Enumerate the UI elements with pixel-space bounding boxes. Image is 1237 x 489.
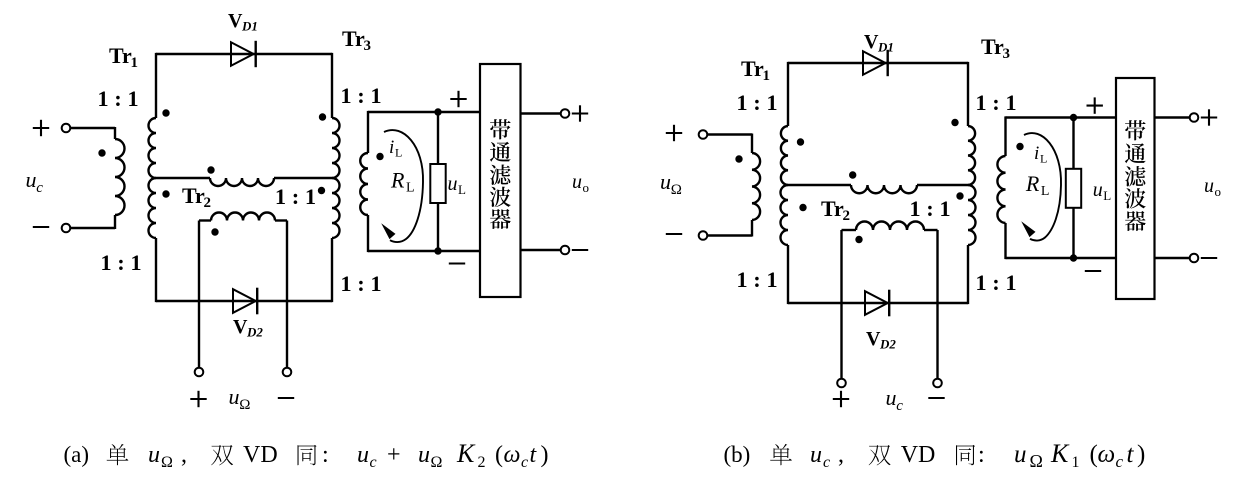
svg-text:L: L [458, 182, 466, 197]
node: output - terminal (a) [561, 246, 589, 255]
transformer Tr2 lower winding (b) [842, 222, 938, 230]
caption (b) [724, 439, 1146, 471]
wire output top (a) [521, 112, 561, 114]
transformer Tr1 secondary / left column winding (b) [781, 62, 788, 304]
svg-text:L: L [1103, 188, 1111, 203]
svg-text:Tr: Tr [109, 43, 132, 68]
polarity dot left column lower (a) [162, 190, 169, 197]
svg-text:Tr: Tr [981, 34, 1004, 59]
transformer Tr3 primary / right column winding (b) [968, 62, 976, 304]
svg-text:R: R [1025, 171, 1040, 196]
label VD2 (a) [233, 316, 263, 340]
svg-text:1: 1 [131, 55, 139, 71]
svg-text:1 : 1: 1 : 1 [975, 270, 1016, 295]
svg-text:o: o [1215, 184, 1222, 199]
transformer Tr1 primary winding (b) [752, 153, 760, 220]
caption (a) [64, 439, 549, 471]
svg-text:u: u [26, 167, 37, 192]
svg-text:u: u [357, 442, 369, 468]
wire top rail (a) [156, 53, 332, 55]
transformer Tr3 secondary winding (b) [997, 116, 1005, 259]
svg-text:D1: D1 [241, 19, 258, 34]
label + load (b) [1087, 97, 1103, 113]
svg-text:c: c [896, 398, 903, 414]
svg-text:3: 3 [1003, 46, 1011, 62]
svg-text:2: 2 [843, 208, 851, 224]
label Tr3 (a) [342, 26, 371, 54]
polarity dot left column upper (a) [162, 109, 169, 116]
svg-text:t: t [1127, 441, 1135, 468]
wire output top (b) [1155, 116, 1190, 118]
label Tr3 (b) [981, 34, 1010, 62]
transformer Tr1 primary winding (a) [115, 139, 125, 215]
node: output + terminal (b) [1190, 109, 1218, 125]
wire output bottom (b) [1155, 257, 1190, 259]
transformer Tr3 primary / right column winding (a) [332, 53, 340, 302]
label Tr2 (b) [821, 196, 850, 224]
svg-text:(a): (a) [64, 442, 90, 467]
diode VD2 (b) [865, 290, 889, 317]
svg-text:1 : 1: 1 : 1 [275, 184, 316, 209]
svg-text:V: V [233, 316, 248, 338]
svg-text:D1: D1 [877, 40, 894, 55]
wire center rail with Tr2 winding (a) [156, 178, 332, 186]
label band-pass filter characters (a) [490, 119, 511, 229]
polarity dot right column upper (b) [951, 119, 958, 126]
svg-text:1 : 1: 1 : 1 [97, 86, 138, 111]
polarity dot Tr3 secondary (a) [376, 153, 383, 160]
label 1:1 middle (a) [275, 184, 316, 209]
polarity dot Tr2 lower winding (b) [855, 236, 862, 243]
svg-text:u: u [418, 442, 430, 468]
polarity dot Tr2 lower winding (a) [211, 228, 218, 235]
svg-text:Tr: Tr [342, 26, 365, 51]
wire output bottom (a) [521, 249, 561, 251]
label input voltage uΩ (b) [660, 169, 682, 198]
band-pass filter box (b) [1116, 78, 1155, 299]
svg-text:R: R [390, 168, 405, 193]
junction dot load top (a) [434, 108, 441, 115]
svg-text::: : [978, 442, 985, 468]
node: control - terminal (a) [278, 368, 294, 398]
label - load (b) [1085, 270, 1101, 272]
label VD2 (b) [866, 328, 896, 352]
svg-text:Tr: Tr [821, 196, 844, 221]
label Tr2 (a) [182, 183, 211, 211]
svg-text:): ) [541, 442, 549, 468]
diode VD1 (b) [863, 50, 888, 76]
svg-text:1 : 1: 1 : 1 [736, 267, 777, 292]
svg-text:VD: VD [901, 442, 936, 468]
svg-text:c: c [1116, 452, 1124, 471]
svg-text:u: u [1204, 175, 1214, 197]
node: input - terminal (a) [33, 224, 71, 233]
svg-text:Ω: Ω [239, 397, 250, 413]
wire bottom rail (b) [788, 302, 968, 304]
wire top rail (b) [788, 62, 968, 64]
transformer Tr3 secondary winding (a) [360, 111, 368, 252]
label 1:1 lower-right (b) [975, 270, 1016, 295]
polarity dot Tr2 center winding (a) [207, 166, 214, 173]
label uL (a) [448, 173, 467, 197]
svg-text:u: u [1093, 179, 1103, 201]
label 1:1 upper-left (a) [97, 86, 138, 111]
label 1:1 middle (b) [909, 196, 950, 221]
svg-text:ω: ω [504, 442, 521, 468]
svg-text:1 : 1: 1 : 1 [340, 271, 381, 296]
svg-text:Tr: Tr [182, 183, 205, 208]
svg-text:1: 1 [1072, 454, 1080, 471]
polarity dot left column lower (b) [799, 204, 806, 211]
svg-text:i: i [389, 137, 394, 158]
label Tr1 (a) [109, 43, 138, 71]
svg-text:L: L [1040, 152, 1047, 166]
svg-text:u: u [148, 442, 160, 468]
svg-text:u: u [229, 384, 240, 409]
node: control - terminal (b) [928, 379, 944, 398]
node: output + terminal (a) [561, 105, 589, 121]
polarity dot Tr2 center winding (b) [849, 171, 856, 178]
transformer Tr1 secondary / left column winding (a) [149, 53, 156, 302]
svg-text:c: c [36, 180, 43, 196]
wire input top (b) [707, 134, 752, 154]
wire load bottom rail (b) [1006, 257, 1117, 259]
wire right leg to bottom terminal (a) [286, 221, 288, 368]
node: control + terminal (b) [833, 379, 849, 408]
label 1:1 upper-left (b) [736, 90, 777, 115]
svg-text:,: , [838, 442, 844, 468]
wire load top rail (a) [368, 111, 480, 113]
resistor RL body (b) [1066, 169, 1081, 208]
svg-text:2: 2 [204, 195, 212, 211]
label iL (b) [1034, 143, 1047, 166]
label VD1 (a) [228, 10, 258, 34]
svg-text:VD: VD [243, 442, 278, 468]
svg-text:c: c [823, 454, 830, 471]
svg-text:(: ( [495, 442, 503, 468]
svg-text:c: c [521, 454, 528, 471]
svg-text:i: i [1034, 143, 1039, 164]
svg-text:): ) [1137, 441, 1145, 468]
band-pass filter box (a) [480, 64, 521, 297]
polarity dot right column lower (a) [318, 187, 325, 194]
label RL (b) [1025, 171, 1050, 199]
wire load bottom rail (a) [368, 250, 480, 252]
node: input - terminal (b) [666, 231, 708, 240]
svg-text:Ω: Ω [671, 182, 682, 198]
svg-text:u: u [1014, 441, 1027, 468]
label 1:1 lower-left (a) [100, 250, 141, 275]
label iL (a) [389, 137, 402, 160]
svg-text:V: V [866, 328, 881, 350]
label 1:1 lower-right (a) [340, 271, 381, 296]
node: input + terminal (b) [666, 125, 708, 141]
svg-text:,: , [181, 442, 187, 468]
svg-text:Ω: Ω [1030, 451, 1043, 471]
junction dot load top (b) [1070, 114, 1077, 121]
wire left leg to bottom terminal (a) [198, 221, 200, 368]
label bottom voltage uc (b) [886, 385, 904, 414]
label RL (a) [390, 168, 415, 196]
svg-text:L: L [1041, 184, 1050, 199]
diode VD1 (a) [231, 41, 256, 67]
junction dot load bottom (b) [1070, 254, 1077, 261]
polarity dot left column upper (b) [797, 138, 804, 145]
svg-text:u: u [886, 385, 897, 410]
svg-text:K: K [1050, 439, 1070, 468]
svg-text:u: u [810, 442, 822, 468]
wire left leg to bottom terminal (b) [840, 230, 842, 379]
node: input + terminal (a) [33, 120, 71, 136]
wire input top (a) [70, 127, 115, 139]
junction dot load bottom (a) [434, 247, 441, 254]
label input voltage uc (a) [26, 167, 44, 196]
svg-text:1 : 1: 1 : 1 [340, 83, 381, 108]
wire input bottom (a) [70, 215, 115, 229]
current loop arrow iL (b ) [1021, 133, 1061, 241]
svg-text:V: V [864, 31, 879, 53]
svg-text:L: L [406, 181, 415, 196]
polarity dot right column lower (b) [956, 192, 963, 199]
transformer Tr2 lower winding (a) [199, 213, 287, 221]
svg-text:(b): (b) [724, 442, 751, 467]
node: output - terminal (b) [1190, 254, 1218, 263]
label + load (a) [450, 91, 466, 107]
label band-pass filter characters (b) [1125, 120, 1146, 231]
label VD1 (b) [864, 31, 894, 55]
polarity dot right column upper (a) [319, 113, 326, 120]
label 1:1 upper-right (a) [340, 83, 381, 108]
wire bottom rail (a) [156, 300, 332, 302]
svg-text:u: u [572, 171, 582, 193]
current loop arrow iL (a ) [381, 130, 423, 242]
label uL (b) [1093, 179, 1112, 203]
polarity dot Tr3 secondary (b) [1016, 143, 1023, 150]
wire resistor branch (b) [1072, 118, 1074, 259]
diode VD2 (a) [233, 288, 257, 315]
svg-text:ω: ω [1098, 441, 1116, 468]
svg-text:u: u [660, 169, 671, 194]
wire load top rail (b) [1006, 116, 1117, 118]
polarity dot Tr1 primary (b) [735, 155, 742, 162]
label - load (a) [449, 262, 465, 264]
label uo (b) [1204, 175, 1221, 199]
svg-text:c: c [370, 454, 377, 471]
svg-text:1: 1 [763, 68, 771, 84]
label 1:1 upper-right (b) [975, 90, 1016, 115]
wire input bottom (b) [707, 220, 752, 237]
svg-text:u: u [448, 173, 458, 195]
svg-text:1 : 1: 1 : 1 [100, 250, 141, 275]
wire center rail with Tr2 winding (b) [788, 185, 968, 193]
label Tr1 (b) [741, 56, 770, 84]
svg-text::: : [322, 442, 329, 468]
svg-text:2: 2 [478, 454, 486, 471]
resistor RL body (a) [430, 164, 445, 203]
svg-text:1 : 1: 1 : 1 [736, 90, 777, 115]
polarity dot Tr1 primary (a) [98, 149, 105, 156]
svg-text:V: V [228, 10, 243, 32]
svg-text:3: 3 [364, 38, 372, 54]
svg-text:L: L [395, 146, 402, 160]
svg-text:Ω: Ω [161, 454, 173, 471]
wire right leg to bottom terminal (b) [936, 230, 938, 379]
label 1:1 lower-left (b) [736, 267, 777, 292]
label bottom voltage uΩ (a) [229, 384, 251, 413]
svg-text:+: + [387, 442, 401, 468]
svg-text:Tr: Tr [741, 56, 764, 81]
node: control + terminal (a) [190, 368, 206, 408]
svg-text:D2: D2 [879, 337, 896, 352]
wire resistor branch (a) [437, 112, 439, 251]
svg-text:Ω: Ω [431, 454, 443, 471]
svg-text:K: K [456, 439, 476, 468]
svg-text:1 : 1: 1 : 1 [975, 90, 1016, 115]
label uo (a) [572, 171, 589, 195]
svg-text:D2: D2 [246, 325, 263, 340]
svg-text:o: o [583, 180, 590, 195]
svg-text:1 : 1: 1 : 1 [909, 196, 950, 221]
